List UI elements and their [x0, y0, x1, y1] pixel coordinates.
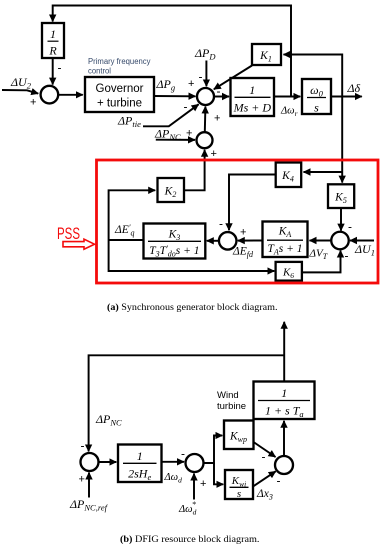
block 1/(2sHe) [118, 445, 162, 483]
summing junction T3 [275, 456, 293, 474]
svg-text:(a) Synchronous generator bloc: (a) Synchronous generator block diagram. [107, 302, 278, 313]
svg-text:Primary frequency: Primary frequency [88, 57, 151, 66]
block KA/(TAs+1) [263, 222, 308, 258]
wire S3 to block K3 [207, 240, 219, 242]
wire: speed feedback from node Δω_r up and over to 1/R [53, 6, 291, 97]
block ω0/s [302, 79, 331, 115]
svg-text:-: - [58, 61, 62, 75]
svg-text:-: - [184, 100, 188, 114]
wire K6 to S4, minus sign [302, 249, 349, 273]
summing junction S1 [41, 86, 59, 104]
svg-text:-: - [219, 217, 223, 231]
block K4 [276, 163, 302, 188]
label Δω*_d and wire into T2, plus sign [178, 474, 206, 517]
svg-text:+: + [30, 97, 36, 109]
svg-text:s: s [237, 488, 241, 500]
wire S1 to Governor block [58, 94, 83, 96]
label ΔP_NC and wire into S5, plus sign [154, 127, 195, 143]
svg-text:+: + [214, 113, 220, 125]
wire K5 to summing junction S4, minus sign [341, 208, 352, 234]
svg-text:PSS: PSS [57, 225, 80, 243]
svg-text:TAs + 1: TAs + 1 [267, 243, 302, 257]
label ΔU2 and input wire into S1, plus sign [2, 75, 38, 109]
svg-text:1 + s Ta: 1 + s Ta [265, 404, 304, 420]
wire ω0/s to output Δδ [331, 96, 362, 98]
svg-text:-: - [277, 474, 281, 488]
wire DFIG feedback from output node to T1, minus sign [81, 355, 285, 452]
svg-text:(b) DFIG resource block diagra: (b) DFIG resource block diagram. [120, 534, 260, 545]
summing junction T2 [186, 454, 204, 472]
wire ΔE'q from K3 to branch node [109, 239, 144, 241]
wire K1 to S2 (diagonal), minus sign [214, 66, 252, 99]
svg-text:+ turbine: + turbine [97, 98, 142, 110]
svg-text:+: + [200, 478, 206, 490]
svg-text:-: - [181, 447, 185, 461]
wire S5 up to S2, plus sign [205, 107, 221, 133]
svg-text:-: - [348, 220, 352, 234]
svg-text:Governor: Governor [96, 83, 144, 95]
svg-text:1: 1 [137, 449, 143, 463]
label ΔP_NC,ref and wire into T1, plus sign [69, 473, 109, 513]
wire junction to K4 [304, 171, 343, 173]
wire Kwi to T3 (diagonal), minus sign, label Δx3 [253, 471, 281, 501]
label Wind turbine [217, 390, 246, 412]
summing junction S2 [197, 88, 214, 105]
label PSS with red arrow [57, 225, 95, 249]
wire 1/2sHe to T2 with label Δω_d, minus sign [162, 447, 186, 485]
svg-text:Δδ: Δδ [347, 81, 361, 95]
svg-text:turbine: turbine [217, 401, 246, 412]
wire T3 up into wind turbine block [283, 421, 285, 456]
wire node Δδ down to K5 [341, 97, 343, 183]
block K5 [328, 184, 354, 208]
svg-text:1: 1 [50, 27, 56, 41]
svg-text:control: control [88, 67, 111, 76]
wire K4 to summing junction S3, minus sign [219, 175, 276, 231]
svg-text:Wind: Wind [217, 390, 239, 401]
label ΔU1 and input wire into S4 [350, 241, 375, 258]
svg-text:+: + [186, 128, 192, 140]
wire K2 up to summing junction S5, plus sign [184, 148, 217, 190]
svg-text:R: R [48, 44, 57, 58]
wire T2 to branch, up to Kwp and down to Kwi [204, 436, 224, 485]
wire Kwp to T3 (diagonal), minus sign [254, 442, 276, 464]
wire branch node down and across to K6 [109, 240, 275, 271]
wire S2 to block 1/(Ms+D) [214, 96, 229, 98]
block Governor + turbine [85, 77, 154, 112]
svg-text:-: - [81, 439, 85, 453]
block K3/(T3T'do s+1) [144, 224, 206, 259]
svg-text:-: - [262, 450, 266, 464]
block 1/(Ms+D) [231, 78, 275, 116]
svg-text:1: 1 [249, 83, 255, 97]
label ΔP_D and wire into S2, minus sign [194, 46, 216, 86]
block K2 [158, 178, 185, 202]
block 1/(1+sTa) [254, 382, 315, 420]
wire 1/R to summing junction S1, minus sign [53, 58, 62, 85]
label Primary frequency control [88, 57, 151, 76]
svg-text:s: s [314, 101, 319, 115]
summing junction T1 [81, 453, 99, 471]
block K1 [252, 44, 281, 65]
wire KA to summing junction S3, plus sign [238, 227, 263, 241]
summing junction S3 [219, 232, 237, 250]
block Kwp [224, 421, 254, 450]
summing junction S4 [331, 232, 349, 250]
svg-text:+: + [79, 474, 85, 486]
wire branch node up to K2 [109, 190, 156, 240]
wire DFIG output upward [283, 322, 285, 382]
block K6 [276, 262, 302, 281]
wire node Δδ up to K1 [284, 55, 343, 97]
svg-text:1: 1 [281, 386, 287, 400]
svg-text:Ms + D: Ms + D [233, 101, 272, 115]
svg-text:+: + [211, 148, 217, 160]
svg-text:+: + [240, 227, 246, 239]
svg-text:-: - [345, 249, 349, 263]
wire T1 to block 1/2sHe [99, 461, 117, 463]
block Kwi/s [225, 470, 253, 500]
summing junction S5 [197, 132, 213, 148]
wire 1/(Ms+D) to ω0/s with junction at Δω_r node [274, 96, 300, 98]
svg-text:-: - [199, 70, 203, 84]
block 1/R [42, 23, 64, 58]
label ΔP_tie and wire into S2, minus sign [117, 100, 199, 130]
PSS boundary red box [97, 160, 379, 283]
wire S4 to block KA [310, 240, 332, 242]
svg-text:+: + [188, 78, 194, 90]
wire Governor to summing junction S2, plus sign [154, 78, 196, 96]
